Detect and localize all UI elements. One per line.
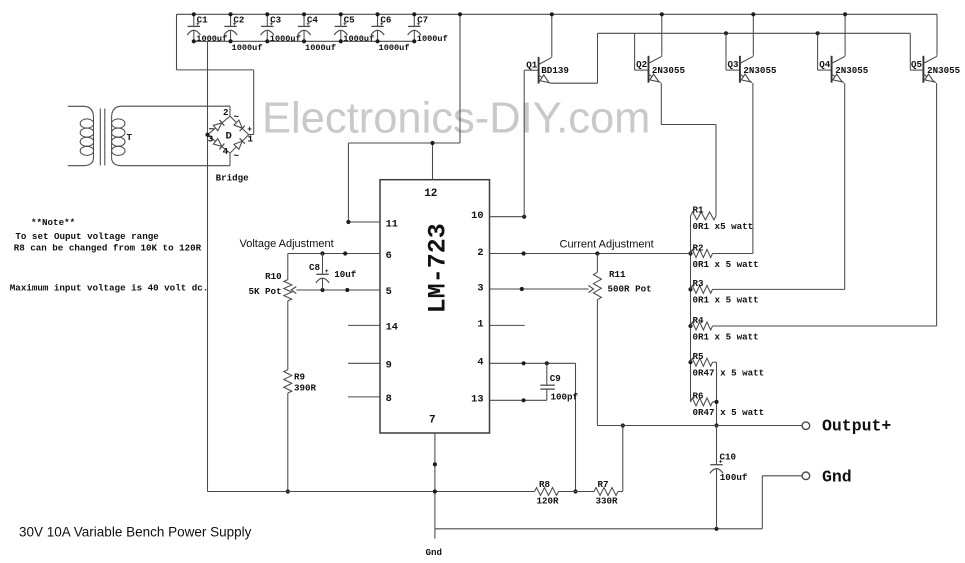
wire R9 to ground row <box>286 393 290 494</box>
svg-text:R9: R9 <box>294 372 305 383</box>
svg-text:2N3055: 2N3055 <box>927 65 961 76</box>
svg-text:7: 7 <box>429 415 436 427</box>
wire Q2 collector <box>660 12 664 56</box>
resistor R3 0R1 x 5 watt <box>691 278 759 306</box>
wire pin 6 row <box>288 251 380 255</box>
svg-text:R3: R3 <box>693 278 705 289</box>
wire ladder bus <box>688 216 692 402</box>
svg-text:8: 8 <box>386 393 392 405</box>
svg-text:330R: 330R <box>596 496 619 507</box>
capacitor C2 1000uf <box>224 12 263 53</box>
label Bridge <box>216 173 250 184</box>
svg-text:Q3: Q3 <box>728 59 740 70</box>
svg-text:1000uf: 1000uf <box>232 43 263 53</box>
label Voltage Adjustment <box>240 238 334 250</box>
potentiometer R11 500R Pot <box>593 254 651 300</box>
wire pin 11 <box>346 143 380 224</box>
capacitor C5 1000uf <box>334 12 374 44</box>
resistor R6 0R47 x 5 watt <box>691 391 765 419</box>
svg-text:+: + <box>196 21 200 28</box>
capacitor C6 1000uf <box>371 12 410 53</box>
wire bottom ground rail <box>435 527 762 539</box>
wire pin 13 row <box>490 398 547 402</box>
svg-text:R1: R1 <box>693 205 705 216</box>
wire pin 12 to +V rail <box>348 12 462 180</box>
resistor R7 330R <box>594 479 618 507</box>
svg-text:10uf: 10uf <box>334 269 357 280</box>
svg-text:Bridge: Bridge <box>216 173 250 184</box>
svg-text:1000uf: 1000uf <box>379 43 410 53</box>
svg-text:Current Adjustment: Current Adjustment <box>560 238 654 250</box>
svg-text:D: D <box>226 131 232 143</box>
capacitor C3 1000uf <box>261 12 301 44</box>
wire Q2 base drop <box>635 33 649 70</box>
svg-text:2N3055: 2N3055 <box>835 65 869 76</box>
title 30V 10A Variable Bench Power Supply <box>19 525 252 540</box>
svg-text:Maximum input voltage is 40 vo: Maximum input voltage is 40 volt dc. <box>10 283 208 294</box>
resistor R2 0R1 x 5 watt <box>691 242 759 269</box>
svg-text:9: 9 <box>386 360 392 372</box>
svg-text:R6: R6 <box>693 391 704 402</box>
svg-text:Voltage Adjustment: Voltage Adjustment <box>240 238 334 250</box>
wire pin 7 down <box>433 433 437 529</box>
wire pin 3 row (current sense) <box>490 286 594 293</box>
svg-text:R5: R5 <box>693 351 705 362</box>
wire R8-R7 link <box>559 491 595 493</box>
svg-text:2: 2 <box>477 247 483 259</box>
wire Gnd terminal <box>762 476 802 529</box>
svg-text:~: ~ <box>234 112 240 123</box>
resistor R4 0R1 x 5 watt <box>691 315 759 343</box>
wire pin 4 divider riser <box>573 363 577 493</box>
resistor R5 0R47 x 5 watt <box>691 351 765 379</box>
transistor Q2 2N3055 <box>636 56 685 85</box>
svg-text:Electronics-DIY.com: Electronics-DIY.com <box>262 95 650 143</box>
watermark Electronics-DIY.com <box>262 95 650 143</box>
wire pin 4 row <box>490 361 576 365</box>
wire - bus (bridge minus to ground row) <box>207 41 209 491</box>
wire Q3 base drop <box>726 33 740 70</box>
potentiometer R10 5K Pot <box>249 254 292 301</box>
svg-text:Gnd: Gnd <box>822 468 852 487</box>
svg-text:R4: R4 <box>693 315 705 326</box>
svg-text:0R1 x 5 watt: 0R1 x 5 watt <box>693 295 759 306</box>
svg-text:0R1 x 5 watt: 0R1 x 5 watt <box>693 331 759 342</box>
wire Q4 collector <box>843 12 847 56</box>
svg-text:Q5: Q5 <box>911 59 923 70</box>
svg-text:+: + <box>270 21 274 28</box>
svg-text:0R47 x 5 watt: 0R47 x 5 watt <box>693 368 765 379</box>
svg-text:Q2: Q2 <box>636 59 647 70</box>
transistor Q4 2N3055 <box>819 56 869 85</box>
svg-text:0R47 x 5 watt: 0R47 x 5 watt <box>693 407 765 418</box>
op-amp regulator U1 LM-723 <box>380 180 490 433</box>
capacitor C7 1000uf <box>408 12 448 44</box>
svg-text:~: ~ <box>234 151 240 162</box>
svg-text:+: + <box>343 21 347 28</box>
wire Q3 collector <box>751 12 755 56</box>
svg-text:BD139: BD139 <box>541 65 569 76</box>
svg-text:11: 11 <box>386 218 398 230</box>
wire Q4 base drop <box>818 33 832 70</box>
svg-text:C9: C9 <box>550 373 561 384</box>
svg-text:+: + <box>380 21 384 28</box>
svg-text:1000uf: 1000uf <box>417 34 448 44</box>
pin 14 stub <box>348 324 380 326</box>
svg-text:R10: R10 <box>265 271 282 282</box>
transistor Q5 2N3055 <box>911 56 961 85</box>
svg-text:6: 6 <box>386 250 392 262</box>
svg-text:5: 5 <box>386 286 392 298</box>
svg-text:R8: R8 <box>539 479 551 490</box>
svg-text:1: 1 <box>477 319 483 331</box>
wire Q5 collector <box>936 14 938 56</box>
capacitor C4 1000uf <box>297 12 336 53</box>
transistor Q1 BD139 <box>526 57 569 86</box>
terminal Output+ <box>802 416 891 435</box>
wire + feed from bridge (left corner) <box>177 14 254 134</box>
svg-text:R7: R7 <box>598 479 609 490</box>
svg-text:0R1 x 5 watt: 0R1 x 5 watt <box>693 259 759 270</box>
wire Q1 emitter to base rail <box>551 33 598 83</box>
wire ground row <box>208 491 535 493</box>
wire top +V rail <box>177 13 938 15</box>
svg-text:1000uf: 1000uf <box>196 34 227 44</box>
svg-text:To set Ouput voltage range: To set Ouput voltage range <box>15 231 159 242</box>
terminal Gnd <box>802 468 852 487</box>
svg-text:R2: R2 <box>693 242 704 253</box>
svg-text:Q4: Q4 <box>819 59 831 70</box>
wire output row <box>597 425 802 427</box>
capacitor C10 100uf <box>710 426 748 529</box>
svg-text:R8 can be changed from 10K to: R8 can be changed from 10K to 120R <box>14 243 202 254</box>
wire R10 to R9 <box>287 301 289 370</box>
pin 1 stub <box>490 324 525 326</box>
label Gnd bottom <box>426 547 443 558</box>
svg-text:LM-723: LM-723 <box>424 223 453 313</box>
svg-text:500R Pot: 500R Pot <box>608 283 652 294</box>
svg-text:Gnd: Gnd <box>426 547 443 558</box>
svg-text:T: T <box>127 132 133 143</box>
wire Q1 collector <box>550 12 554 57</box>
svg-text:12: 12 <box>424 188 437 200</box>
svg-text:3: 3 <box>477 283 483 295</box>
svg-text:0R1 x5 watt: 0R1 x5 watt <box>693 221 754 232</box>
svg-text:30V 10A Variable Bench Power S: 30V 10A Variable Bench Power Supply <box>19 525 252 540</box>
svg-text:120R: 120R <box>537 496 560 507</box>
svg-text:Output+: Output+ <box>822 416 891 435</box>
svg-text:14: 14 <box>386 322 398 334</box>
svg-text:3: 3 <box>208 134 214 145</box>
wire Q5 emitter to R4 <box>713 83 937 326</box>
resistor R9 390R <box>284 370 317 394</box>
svg-text:1000uf: 1000uf <box>343 34 374 44</box>
resistor R1 0R1 x5 watt <box>691 205 754 233</box>
svg-text:+: + <box>417 21 421 28</box>
pin 8 stub <box>348 396 380 398</box>
wire R7 riser to output row <box>618 423 625 491</box>
svg-text:4: 4 <box>223 146 229 157</box>
label Current Adjustment <box>560 238 654 250</box>
svg-text:5K Pot: 5K Pot <box>249 286 282 297</box>
svg-text:R11: R11 <box>609 269 626 280</box>
svg-text:100pf: 100pf <box>551 392 579 403</box>
capacitor C8 10uf <box>309 254 357 291</box>
capacitor C9 100pf <box>540 363 578 402</box>
note text block <box>10 217 208 294</box>
svg-text:+: + <box>306 21 310 28</box>
svg-text:2: 2 <box>223 107 229 118</box>
svg-text:1000uf: 1000uf <box>305 43 336 53</box>
svg-text:10: 10 <box>471 210 483 222</box>
capacitor C1 1000uf <box>187 12 227 44</box>
wire capacitor-bank bottom rail <box>194 40 416 42</box>
svg-text:+: + <box>233 21 237 28</box>
wire pin 5 row (wiper) <box>291 287 380 294</box>
wire pin 2 row (current limit) <box>490 251 691 255</box>
wire R5/R6 to output <box>713 362 719 427</box>
svg-text:Q1: Q1 <box>526 60 538 71</box>
svg-text:C8: C8 <box>309 262 321 273</box>
wire base feed rail <box>598 31 911 35</box>
resistor R8 120R <box>535 479 560 507</box>
wire Q5 base drop <box>910 33 923 70</box>
svg-text:13: 13 <box>471 394 483 406</box>
svg-text:1000uf: 1000uf <box>270 34 301 44</box>
svg-text:2N3055: 2N3055 <box>652 65 686 76</box>
transformer T <box>68 106 230 166</box>
svg-text:4: 4 <box>477 357 483 369</box>
wire Q2 emitter to R1 <box>661 83 716 216</box>
svg-text:100uf: 100uf <box>720 472 748 483</box>
svg-text:+: + <box>325 268 329 275</box>
svg-text:1: 1 <box>248 134 254 145</box>
wire R11 bottom to output row <box>596 300 598 426</box>
svg-text:2N3055: 2N3055 <box>743 65 777 76</box>
svg-text:**Note**: **Note** <box>31 217 75 228</box>
wire pin 10 to Q1 base <box>490 70 539 219</box>
svg-text:390R: 390R <box>294 382 317 393</box>
transistor Q3 2N3055 <box>728 56 777 85</box>
wire Q4 emitter to R3 <box>713 83 845 289</box>
pin 9 stub <box>348 362 380 364</box>
svg-text:+: + <box>719 459 723 466</box>
wire Q3 emitter to R2 <box>713 83 753 254</box>
bridge rectifier D <box>205 107 253 162</box>
wire secondary to bridge node 2 <box>229 106 231 116</box>
wire secondary to bridge node 4 <box>229 153 231 166</box>
